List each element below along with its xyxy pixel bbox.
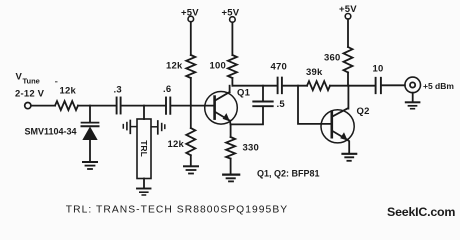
capacitor C 10 (375, 78, 377, 93)
ground output (406, 101, 420, 103)
resistor R 330 (226, 137, 235, 159)
capacitor C .6 (165, 98, 167, 114)
wire emitter to R330 (230, 124, 232, 137)
svg-text:12k: 12k (168, 139, 185, 150)
capacitor C 470 (277, 78, 279, 94)
svg-text:Q1: Q1 (237, 88, 251, 99)
svg-text:10: 10 (373, 63, 384, 74)
svg-text:100: 100 (210, 61, 226, 72)
wire node A to Q2 base (298, 86, 332, 124)
svg-text:330: 330 (243, 143, 259, 154)
TRL resonator box (137, 119, 151, 179)
svg-text:+5V: +5V (181, 7, 199, 18)
svg-text:+5V: +5V (339, 4, 357, 15)
wire +5V to R 12k upper (190, 22, 192, 55)
svg-text:Q2: Q2 (357, 106, 370, 117)
ground varactor (83, 161, 97, 163)
node +5V supply 3 (345, 13, 351, 19)
capacitor coupling right of TRL (151, 126, 157, 128)
wire node B to C10 (348, 85, 375, 87)
svg-text:TRL: TRANS-TECH SR8800SPQ1995: TRL: TRANS-TECH SR8800SPQ1995BY (66, 205, 288, 216)
resistor R 12k lower divider (186, 128, 195, 155)
resistor R 12k horizontal (55, 101, 78, 110)
node Vtune input terminal (25, 103, 31, 109)
wire 39k to node B (330, 85, 348, 87)
resistor R 39k (307, 81, 330, 90)
svg-text:12k: 12k (60, 86, 77, 97)
ground TRL (137, 188, 151, 190)
ground lower 12k (184, 165, 198, 167)
svg-text:SeekIC.com: SeekIC.com (387, 205, 455, 219)
wire R1 to varactor node (78, 105, 116, 107)
svg-text:39k: 39k (306, 67, 323, 78)
svg-text:Q1, Q2: BFP81: Q1, Q2: BFP81 (257, 168, 320, 178)
ground Q2 (343, 153, 357, 155)
wire .5 cap bottom to emitter (231, 107, 263, 125)
wire C10 to output (381, 84, 405, 86)
wire collector rail (232, 85, 277, 87)
wire R to rail (190, 78, 192, 106)
wire +5V to R 100 (231, 22, 233, 55)
wire C.6 to Q1 base (171, 105, 214, 107)
wire C.3 to C.6 (121, 105, 166, 107)
svg-text:12k: 12k (166, 61, 183, 72)
ground R330 (223, 174, 239, 176)
wire .5 cap top drop (262, 86, 264, 101)
wire TRL drop (143, 106, 145, 119)
capacitor C .5 (253, 101, 272, 103)
svg-text:+5V: +5V (222, 7, 240, 18)
wire input to R1 (31, 105, 55, 107)
resistor R 100 (228, 55, 237, 78)
capacitor coupling left of TRL (131, 126, 137, 128)
wire varactor drop (89, 106, 91, 122)
diode SMV1104-34 varactor (82, 122, 99, 124)
transistor Q1 (205, 92, 238, 125)
svg-text:TRL: TRL (139, 140, 149, 157)
svg-text:SMV1104-34: SMV1104-34 (25, 126, 77, 136)
svg-text:Tune: Tune (23, 77, 40, 86)
wire 470 to node A (282, 85, 307, 87)
wire rail to lower 12k (190, 106, 192, 128)
svg-text:360: 360 (324, 52, 340, 63)
wire connector to ground (412, 93, 414, 102)
svg-text:.6: .6 (163, 84, 171, 95)
wire TRL to ground (143, 179, 145, 189)
wire lower 12k to ground (190, 155, 192, 166)
svg-text:.5: .5 (277, 99, 286, 110)
wire varactor to ground (89, 140, 91, 162)
resistor R 360 (344, 47, 353, 72)
wire R330 to ground (230, 159, 232, 174)
node +5V supply 1 (188, 16, 194, 22)
svg-text:.3: .3 (114, 84, 122, 95)
svg-text:+5 dBm: +5 dBm (423, 81, 454, 91)
artifact dot (55, 81, 58, 83)
svg-text:2-12 V: 2-12 V (15, 88, 45, 99)
svg-text:470: 470 (271, 62, 287, 73)
node +5V supply 2 (230, 17, 236, 23)
node output connector (405, 77, 421, 93)
wire R360 to node B (347, 72, 349, 85)
transistor Q2 (321, 110, 354, 143)
svg-text:V: V (16, 72, 23, 83)
capacitor C .3 (116, 98, 118, 114)
resistor R 12k upper divider (186, 55, 195, 78)
wire +5V to R360 (347, 19, 349, 47)
wire R100 to collector node (231, 78, 233, 86)
